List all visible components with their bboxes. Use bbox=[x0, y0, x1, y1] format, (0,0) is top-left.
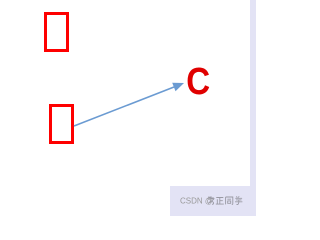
watermark char 学 bbox=[235, 196, 242, 204]
watermark char 同 bbox=[226, 197, 233, 204]
rectangle 2 (bottom red outlined box) bbox=[51, 106, 73, 143]
arrow head bbox=[172, 83, 184, 91]
svg-text:CSDN @: CSDN @ bbox=[180, 197, 213, 206]
lavender bottom-right block bbox=[170, 186, 256, 216]
rectangle 1 (top red outlined box) bbox=[46, 14, 68, 51]
arrow shaft (blue connector) bbox=[74, 87, 174, 126]
lavender page margin right strip bbox=[250, 0, 256, 216]
watermark char 孝 bbox=[208, 196, 215, 204]
watermark char 正 bbox=[216, 198, 224, 205]
svg-text:C: C bbox=[186, 60, 210, 103]
